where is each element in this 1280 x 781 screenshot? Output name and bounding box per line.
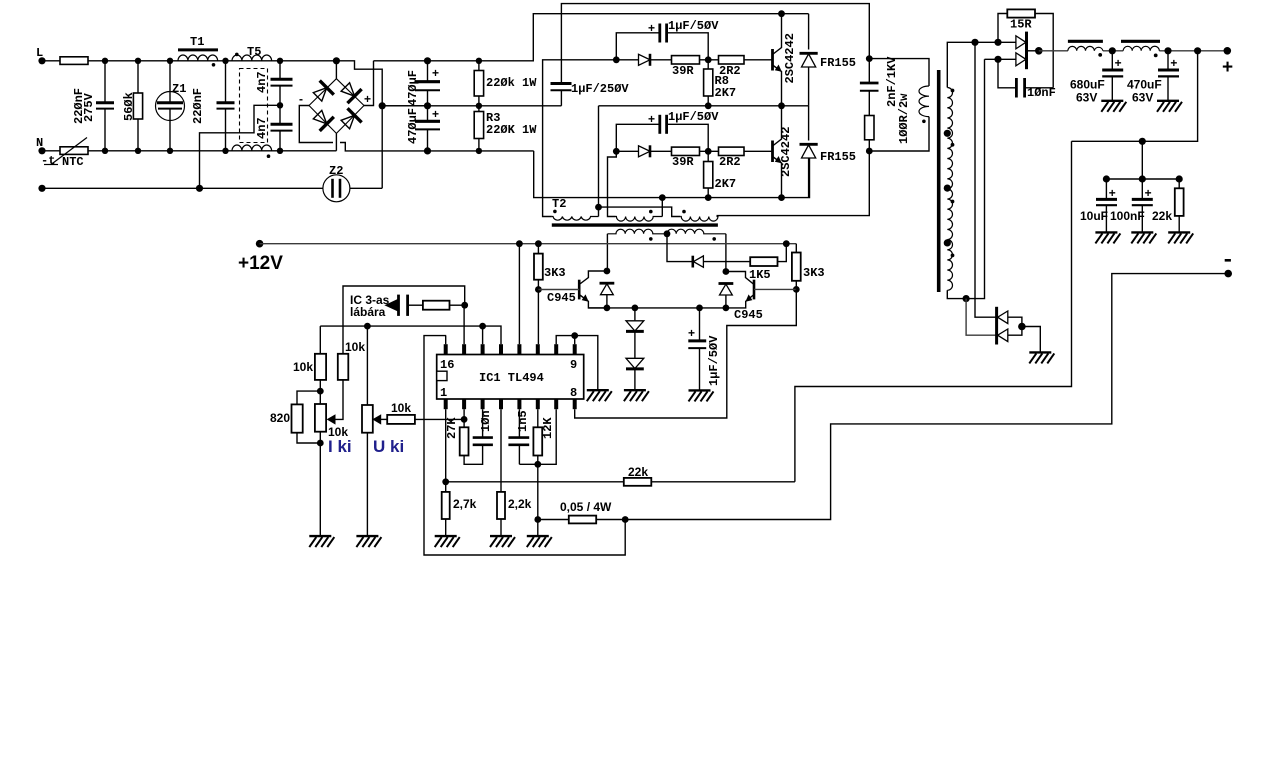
wire fuse to bridge riser	[88, 60, 336, 62]
T2 winding W2	[616, 217, 663, 222]
resistor 560k	[137, 61, 139, 93]
wire 3K3 node to pin 11	[537, 290, 539, 345]
resistor 10k first	[319, 326, 321, 354]
svg-text:1ØØR/2w: 1ØØR/2w	[897, 93, 911, 144]
svg-text:2SC4242: 2SC4242	[779, 127, 793, 177]
svg-text:47ØµF: 47ØµF	[406, 108, 420, 144]
wire sec-left lead down	[606, 234, 608, 271]
svg-text:IC1 TL494: IC1 TL494	[479, 371, 544, 385]
capacitor 10n	[482, 409, 484, 437]
capacitor 100nF	[1141, 179, 1143, 199]
wiper arrow I ki	[327, 414, 336, 424]
svg-text:22Øk 1W: 22Øk 1W	[486, 76, 537, 90]
svg-text:+: +	[1109, 187, 1116, 201]
wire 4n7 midpoint to earth rail	[200, 105, 281, 188]
T3 secondary taps	[944, 130, 951, 137]
diode upper drive	[616, 59, 638, 61]
svg-text:22k: 22k	[1152, 209, 1172, 223]
resistor 12K	[537, 409, 539, 427]
wire lower drive feeder to W2	[608, 151, 617, 216]
svg-text:100nF: 100nF	[1110, 209, 1145, 223]
earth bottom rail	[42, 187, 323, 189]
resistor R3 220K 1W bottom	[478, 106, 480, 112]
capacitor 1uF/250V	[560, 91, 562, 106]
upper drive row node	[613, 56, 620, 63]
snubber node top	[866, 55, 873, 62]
resistor 2,7k	[445, 409, 447, 492]
svg-text:63V: 63V	[1132, 91, 1153, 105]
diode FR155 lower	[808, 106, 810, 198]
lower drive row node	[613, 148, 620, 155]
svg-text:Z1: Z1	[172, 82, 186, 96]
transistor C945 right (mirrored)	[753, 280, 756, 300]
wire pin2 to 27K	[463, 409, 465, 427]
wire doubler tap to cap midpoint	[382, 105, 427, 107]
surge arrester Z2	[323, 175, 350, 202]
wire minus sense	[625, 274, 1228, 520]
transistor Q2 2SC4242 lower	[771, 141, 774, 163]
svg-text:U ki: U ki	[373, 437, 404, 456]
capacitor 4n7 top	[279, 61, 281, 79]
transistor Q1 2SC4242 upper	[771, 49, 774, 71]
svg-text:22ØnF: 22ØnF	[191, 88, 205, 124]
bridge rectifier diamond	[309, 79, 364, 134]
svg-text:C945: C945	[734, 308, 763, 322]
svg-text:+: +	[688, 326, 695, 340]
svg-text:820: 820	[270, 411, 290, 425]
wire base node to pin 8	[575, 289, 797, 418]
capacitor 220nF/275V	[104, 61, 106, 102]
mid DC row	[382, 105, 561, 107]
resistor 100R/2W	[865, 116, 874, 140]
node L-line junctions	[102, 58, 108, 64]
transistor C945 left	[578, 280, 581, 300]
svg-text:FR155: FR155	[820, 150, 856, 164]
wire W1-right node to W3	[599, 207, 681, 216]
wire L to fuse	[42, 60, 60, 62]
svg-text:+: +	[1145, 187, 1152, 201]
svg-text:2,2k: 2,2k	[508, 497, 532, 511]
svg-text:2K7: 2K7	[715, 86, 737, 100]
ground diode stack	[624, 390, 649, 401]
resistor 22k	[624, 478, 652, 486]
svg-text:10k: 10k	[391, 401, 411, 415]
svg-text:470uF: 470uF	[1127, 78, 1162, 92]
dual diode bottom (common anode to ground)	[995, 307, 998, 345]
T2 winding W1	[552, 217, 599, 221]
svg-text:63V: 63V	[1076, 91, 1097, 105]
svg-text:9: 9	[570, 358, 577, 372]
IC1 TL494 body	[437, 355, 584, 400]
svg-text:1Øn: 1Øn	[479, 410, 493, 432]
svg-text:22ØK 1W: 22ØK 1W	[486, 123, 537, 137]
svg-text:10k: 10k	[345, 340, 365, 354]
wire secondary bottom lead	[947, 59, 984, 298]
wire pin12 to +12V	[518, 244, 520, 345]
wire primary return via W3	[717, 151, 870, 216]
potentiometer U ki 10k	[366, 326, 368, 405]
diode bias (cathode left)	[691, 256, 694, 268]
svg-text:39R: 39R	[672, 64, 694, 78]
wire pin4 down to 2,2k	[500, 409, 502, 492]
resistor 10k second	[338, 354, 349, 380]
svg-text:FR155: FR155	[820, 56, 856, 70]
resistor 220k 1W top	[478, 61, 480, 71]
bridge diode top-right	[338, 80, 361, 103]
capacitor 1n5	[518, 409, 520, 437]
minus terminal sign	[1225, 259, 1231, 262]
bridge diode bottom-left	[310, 108, 333, 131]
arrowhead to pin3	[384, 299, 397, 311]
row2 to lower anode	[985, 58, 1016, 60]
svg-text:1µF/5ØV: 1µF/5ØV	[668, 110, 719, 124]
bias diode stack (two diodes down)	[634, 308, 636, 321]
svg-text:3K3: 3K3	[544, 266, 566, 280]
svg-text:15R: 15R	[1010, 18, 1032, 32]
svg-text:3K3: 3K3	[803, 266, 825, 280]
resistor 22k aux	[1178, 179, 1180, 188]
wiper arrow U ki	[372, 414, 381, 424]
diode clamp left (pointing up)	[600, 282, 615, 285]
capacitor 470uF input top	[427, 61, 429, 81]
svg-text:275V: 275V	[82, 92, 96, 122]
top DC rail	[374, 14, 809, 61]
svg-text:2SC4242: 2SC4242	[783, 33, 797, 83]
resistor 1K5	[750, 257, 777, 266]
surge arrester Z1	[169, 61, 171, 102]
ground pins 9/10	[587, 390, 612, 401]
wire bridge plus output	[364, 61, 374, 106]
wire secondary top lead	[947, 42, 1016, 87]
svg-text:+: +	[1115, 57, 1122, 71]
capacitor 1uF/50V emitter	[699, 308, 701, 340]
filter T5 bottom winding	[232, 145, 272, 151]
svg-text:1µF/5ØV: 1µF/5ØV	[668, 19, 719, 33]
diode FR155 upper	[808, 14, 810, 106]
aux row	[1141, 141, 1143, 179]
svg-text:1ØnF: 1ØnF	[1027, 86, 1056, 100]
wire W1 feeder	[543, 60, 617, 217]
wire center-tap to bias diode	[667, 234, 692, 262]
T2 winding W3	[680, 217, 718, 222]
bottom rectifier feeds	[975, 42, 996, 317]
svg-text:N: N	[36, 136, 43, 150]
svg-text:+12V: +12V	[238, 253, 283, 274]
RC to pin 3 group: frame	[343, 286, 465, 354]
emitter row	[588, 307, 726, 309]
fuse F1	[60, 57, 88, 65]
svg-text:T5: T5	[247, 45, 261, 59]
filter T5 top winding	[232, 55, 272, 61]
resistor 2R2 lower	[719, 147, 745, 155]
T3 secondary winding	[947, 88, 952, 291]
wire NTC to bridge bottom	[88, 150, 336, 152]
choke T1	[178, 48, 218, 51]
IC pins bottom	[446, 399, 575, 409]
capacitor 4n7 bottom	[279, 105, 281, 124]
svg-text:Z2: Z2	[329, 164, 343, 178]
resistor 39R upper	[672, 56, 700, 64]
svg-text:47ØµF: 47ØµF	[406, 70, 420, 106]
resistor 10k horizontal	[387, 415, 415, 424]
bridge diode bottom-right	[338, 108, 361, 131]
wire sense loop to pin 16	[424, 336, 625, 555]
bridge diode top-left	[310, 81, 333, 104]
wire N to NTC	[42, 150, 60, 152]
node N-line junctions	[102, 148, 108, 154]
resistor 2R2 upper	[719, 56, 745, 64]
svg-text:2K7: 2K7	[715, 177, 737, 191]
svg-text:I ki: I ki	[328, 437, 352, 456]
svg-text:lábára: lábára	[350, 305, 386, 319]
ground 1uF/50V	[689, 390, 714, 401]
svg-text:56Øk: 56Øk	[122, 92, 136, 121]
resistor 39R lower	[672, 147, 700, 155]
svg-text:C945: C945	[547, 291, 576, 305]
resistor 15R	[998, 14, 1007, 43]
svg-text:8: 8	[570, 386, 577, 400]
svg-text:+: +	[364, 92, 371, 106]
svg-text:4n7: 4n7	[255, 117, 269, 139]
svg-text:-: -	[299, 92, 303, 106]
capacitor 470uF input bottom	[427, 106, 429, 121]
capacitor 10uF	[1105, 179, 1107, 199]
capacitor RC	[397, 295, 400, 316]
svg-text:+: +	[648, 112, 655, 126]
wire switching node to T2	[598, 106, 600, 217]
svg-text:12K: 12K	[541, 417, 555, 439]
output rail	[1039, 50, 1228, 52]
wire RC node to pin 15	[463, 305, 465, 344]
minus DC rail	[424, 147, 431, 154]
svg-text:1n5: 1n5	[516, 410, 530, 432]
capacitor 680uF/63V	[1111, 51, 1113, 70]
capacitor 1uF/50V upper	[616, 33, 659, 60]
wire feedback riser to aux node	[795, 141, 1072, 482]
svg-text:+: +	[432, 107, 439, 121]
wire I ki chain to ground	[319, 443, 321, 536]
capacitor 1uF/50V lower	[616, 124, 659, 151]
switching node row	[599, 105, 809, 107]
wire L-line step to Z2 vertical	[336, 61, 382, 189]
svg-text:10uF: 10uF	[1080, 209, 1108, 223]
resistor 0,05/4W	[538, 519, 569, 521]
resistor 3K3 left	[537, 244, 539, 254]
T5 dashed box	[240, 69, 268, 143]
svg-text:680uF: 680uF	[1070, 78, 1105, 92]
wire aux feed	[1072, 51, 1198, 142]
resistor R8 2K7	[707, 60, 709, 69]
T2 secondary left half	[607, 229, 667, 234]
svg-text:2,7k: 2,7k	[453, 497, 477, 511]
svg-text:27K: 27K	[445, 417, 459, 439]
svg-text:16: 16	[440, 358, 454, 372]
svg-text:+: +	[1170, 57, 1177, 71]
IC pins top	[446, 344, 575, 354]
diode lower drive	[616, 150, 638, 152]
T2 core	[552, 223, 718, 226]
T2 secondary right half	[667, 229, 726, 234]
diode clamp right (pointing up)	[719, 282, 734, 285]
T3 phase dots	[951, 89, 955, 93]
wire pins 9-10 to ground	[556, 336, 598, 390]
T3 core	[937, 70, 941, 292]
terminal L	[38, 57, 45, 64]
svg-text:39R: 39R	[672, 155, 694, 169]
22k feedback row	[446, 481, 624, 483]
svg-text:T1: T1	[190, 35, 204, 49]
lower emitter row	[534, 151, 810, 198]
svg-text:-t: -t	[41, 154, 55, 168]
resistor 2,2k	[497, 492, 505, 519]
svg-text:1K5: 1K5	[749, 268, 771, 282]
T3 primary loop	[869, 59, 929, 86]
wire sec-right lead down	[725, 234, 727, 272]
resistor 3K3 right	[795, 244, 797, 253]
svg-text:1µF/5ØV: 1µF/5ØV	[707, 335, 721, 386]
svg-text:1µF/25ØV: 1µF/25ØV	[571, 82, 629, 96]
svg-text:0,05 / 4W: 0,05 / 4W	[560, 500, 612, 514]
+12V rail	[256, 240, 264, 248]
choke L2	[1121, 40, 1160, 43]
capacitor 220nF (second)	[225, 61, 227, 102]
potentiometer I ki 10k	[319, 391, 321, 404]
resistor 2K7 lower	[707, 151, 709, 161]
terminal N	[38, 147, 45, 154]
choke L1	[1068, 40, 1103, 43]
resistor 820	[297, 391, 320, 404]
dual diode output (common cathode)	[1016, 36, 1026, 49]
svg-text:+: +	[432, 66, 439, 80]
svg-text:10k: 10k	[293, 360, 313, 374]
capacitor 2nF/1KV	[868, 59, 870, 83]
svg-text:L: L	[36, 46, 43, 60]
resistor RC	[423, 301, 450, 310]
svg-text:+: +	[648, 21, 655, 35]
NTC thermistor	[60, 147, 88, 155]
svg-text:22k: 22k	[628, 465, 648, 479]
capacitor 10nF	[1025, 87, 1054, 89]
resistor 27K	[460, 427, 469, 455]
wire bridge minus output	[299, 106, 533, 151]
svg-text:2R2: 2R2	[719, 155, 741, 169]
wire pin7/1n5/12K common	[519, 409, 556, 464]
svg-text:4n7: 4n7	[255, 71, 269, 93]
svg-text:NTC: NTC	[62, 155, 84, 169]
wire bridge bottom to N	[335, 133, 337, 150]
capacitor 470uF/63V output	[1167, 51, 1169, 70]
svg-text:+: +	[1222, 57, 1233, 78]
svg-text:1: 1	[440, 386, 447, 400]
svg-text:T2: T2	[552, 197, 566, 211]
reference row (pins 13,14)	[320, 326, 501, 344]
